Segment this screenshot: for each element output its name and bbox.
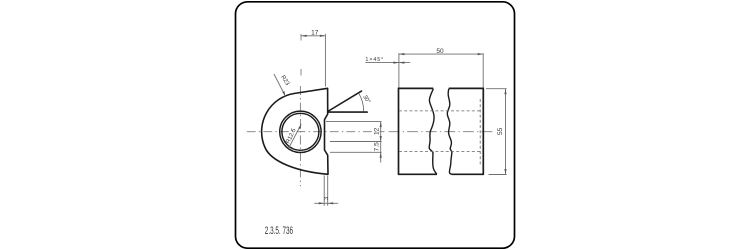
right break wavy line	[447, 89, 452, 175]
right view top edge left part	[398, 87, 433, 89]
dim 17 extension line right	[324, 34, 326, 87]
dim 3 arrows	[319, 202, 334, 204]
dim 55 extension bottom	[489, 174, 507, 176]
left view vertical center line	[299, 86, 301, 186]
dim 12 arrows	[380, 122, 382, 142]
dim 50 extension right	[482, 53, 484, 87]
hole outer (chamfer) circle	[280, 111, 321, 152]
dim 12/7.5 extension line mid	[330, 141, 382, 143]
leader R12.5	[289, 124, 302, 148]
dim 50 line	[399, 53, 483, 55]
angle dimension arc	[359, 93, 364, 111]
svg-text:50: 50	[436, 48, 444, 55]
dim 7.5 arrow	[380, 152, 382, 158]
right view left edge	[398, 88, 400, 174]
leader 1X45	[366, 62, 411, 64]
hidden line hole bottom	[399, 150, 483, 152]
svg-text:3: 3	[324, 197, 330, 200]
dim 55 line	[505, 89, 507, 175]
left view center line extension to 17 dim	[300, 34, 302, 76]
hidden line hole top	[399, 110, 483, 112]
hidden line chamfer vertical	[479, 99, 481, 166]
dim 17 arrows	[301, 35, 325, 37]
left view horizontal center line	[247, 131, 385, 133]
dim 55 extension top	[486, 88, 507, 90]
svg-text:2.3.5. 736: 2.3.5. 736	[265, 224, 293, 236]
svg-text:7.5: 7.5	[374, 142, 381, 151]
dim 12 extension line top	[326, 121, 382, 123]
svg-text:17: 17	[311, 29, 319, 36]
right view right edge	[482, 88, 484, 174]
border frame	[236, 2, 515, 248]
hole inner circle	[282, 113, 319, 150]
right view top edge right part	[449, 87, 484, 89]
dim 55 arrows	[504, 89, 506, 175]
right view bottom edge right part	[452, 173, 485, 175]
tab 30deg slant edge	[328, 91, 362, 111]
dim 7.5 extension line bottom	[330, 151, 382, 153]
svg-text:12: 12	[373, 127, 380, 135]
leader 1X45 arrows	[393, 62, 404, 64]
arrowhead R12.5	[298, 124, 301, 129]
dim 3 extension lines	[324, 176, 328, 206]
right view horizontal center line	[389, 131, 493, 133]
dim 12/7.5 line	[380, 122, 382, 163]
arrowhead R23	[282, 91, 285, 96]
svg-text:55: 55	[497, 127, 504, 135]
tab horizontal edge	[328, 111, 368, 113]
dim 50 arrows	[399, 53, 483, 55]
dim 3 line	[314, 202, 338, 204]
left break wavy line	[429, 89, 437, 175]
leader R23	[274, 74, 285, 96]
dim 50 extension left	[398, 53, 400, 87]
left view outline	[262, 88, 328, 174]
right view bottom edge left part	[398, 173, 437, 175]
dim 17 line	[301, 35, 325, 37]
